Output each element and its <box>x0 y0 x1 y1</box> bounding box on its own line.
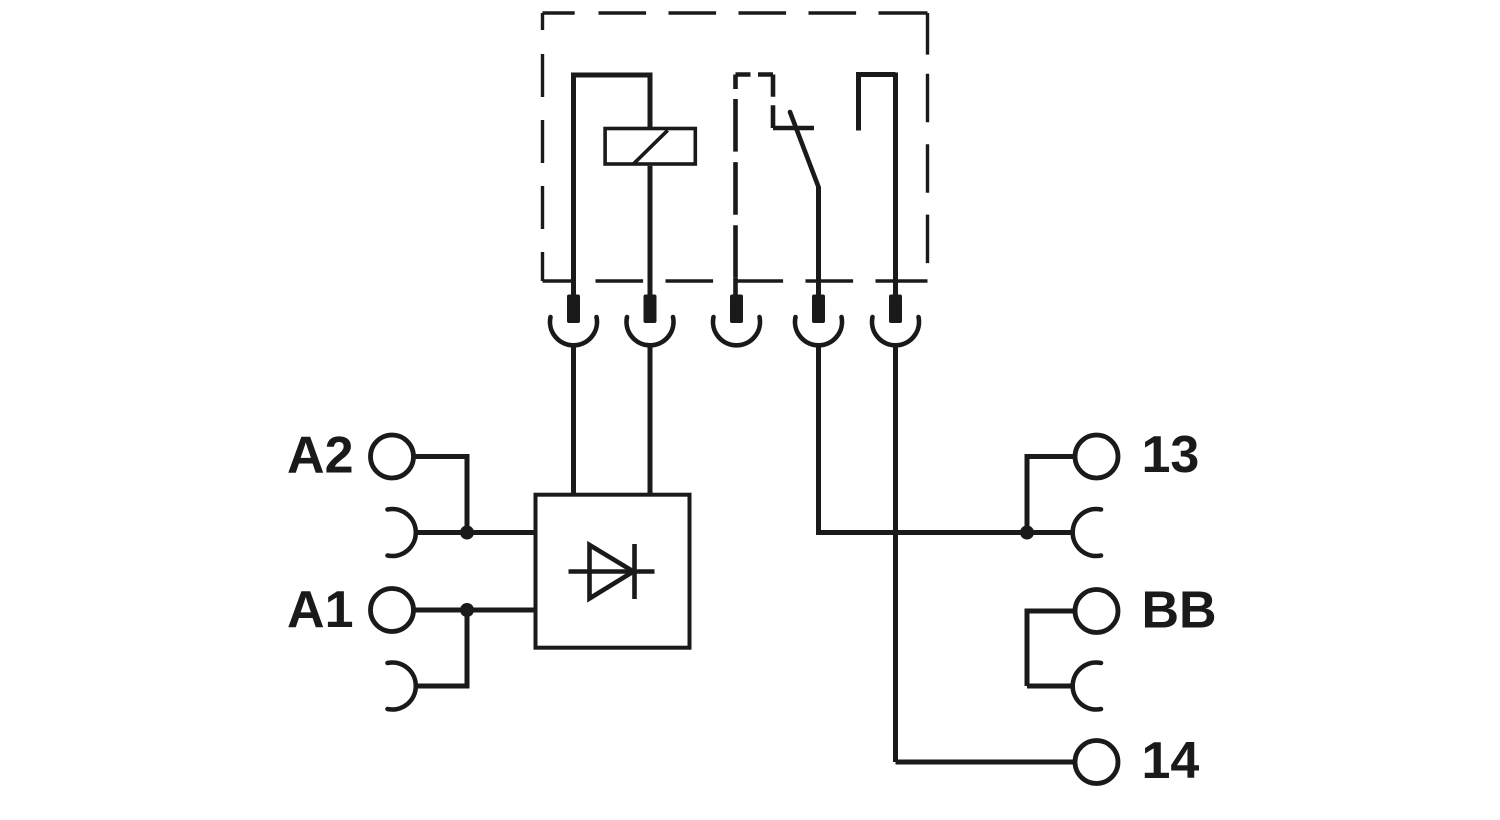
mechanical linkage dashed vertical to contact <box>771 75 776 129</box>
wire: T4 down to contact row <box>816 344 821 533</box>
wire: A2 socket to rectifier box <box>416 530 536 535</box>
wire: 13 circle left horizontal <box>1027 454 1075 459</box>
wire: T2 socket down to rectifier box <box>648 344 653 495</box>
mechanical linkage dashed vertical (to terminal T3) <box>733 75 738 296</box>
svg-text:A2: A2 <box>287 427 353 485</box>
wire: down corner to A1 lower socket <box>416 684 470 689</box>
relay coil K1 diagonal stripe <box>633 130 668 164</box>
wire: A1 to rectifier box <box>414 608 535 613</box>
socket circle A2 <box>371 435 414 478</box>
relay module boundary bottom edge (dashed) <box>543 279 928 282</box>
rectifier module U1 box <box>536 495 690 648</box>
wire: coil loop left riser (terminal T1 up) <box>571 75 576 295</box>
wire: 14 row horizontal <box>896 760 1075 765</box>
terminal T5 socket arc <box>872 317 919 345</box>
wire: A2 corner down to junction <box>465 454 470 533</box>
terminal T2 socket arc <box>627 317 674 345</box>
terminal T4 socket arc <box>795 317 842 345</box>
wire: common drop to terminal T5 <box>893 73 898 296</box>
terminal T5 pin <box>889 295 902 324</box>
junction node at 13 branch <box>1020 526 1034 540</box>
NO contact lever <box>790 112 819 187</box>
svg-text:13: 13 <box>1142 426 1200 484</box>
junction node at A2 branch <box>460 526 474 540</box>
wire: A2 to corner <box>414 454 467 459</box>
wire: contact common stub <box>856 75 861 131</box>
socket half-arc below A2 <box>388 509 416 556</box>
wire: A1 junction down <box>465 610 470 686</box>
wire: coil loop top horizontal <box>571 73 650 78</box>
terminal T3 socket arc <box>713 317 760 345</box>
wire: lever to terminal T4 <box>816 187 821 295</box>
wire: T1 socket down to rectifier box <box>571 344 576 495</box>
socket half-arc below BB <box>1073 663 1101 710</box>
wire: 13 corner down to junction <box>1025 454 1030 533</box>
mechanical linkage dashed horizontal top <box>736 72 774 77</box>
svg-text:BB: BB <box>1142 582 1217 640</box>
relay module boundary left edge (dashed) <box>541 13 544 281</box>
socket circle BB <box>1075 590 1118 633</box>
wire: BB corner down <box>1025 609 1030 687</box>
wire: coil bottom to terminal T2 <box>648 166 653 295</box>
socket circle 13 <box>1075 435 1118 478</box>
svg-text:14: 14 <box>1142 732 1200 790</box>
terminal T3 pin <box>730 295 743 324</box>
wire: contact row horizontal to 13 socket <box>816 530 1072 535</box>
wire: contact common top horizontal <box>856 72 896 77</box>
socket half-arc below A1 <box>388 663 416 710</box>
relay module boundary right edge (dashed) <box>926 13 929 281</box>
diode V1 axis line <box>569 569 655 574</box>
socket half-arc below 13 <box>1073 509 1101 556</box>
socket circle 14 <box>1075 741 1118 784</box>
wire: BB circle left horizontal <box>1027 609 1075 614</box>
terminal T1 pin <box>567 295 580 324</box>
junction node at A1 branch <box>460 603 474 617</box>
relay module boundary top edge (dashed) <box>543 11 928 14</box>
relay coil K1 body <box>605 129 695 165</box>
wire: T5 down to 14 row <box>893 344 898 762</box>
svg-text:A1: A1 <box>287 581 353 639</box>
terminal T2 pin <box>644 295 657 324</box>
terminal T1 socket arc <box>550 317 597 345</box>
diode V1 cathode bar <box>632 544 637 599</box>
wire: coil loop right drop to coil <box>648 73 653 129</box>
terminal T4 pin <box>812 295 825 324</box>
NO contact fixed bar <box>773 126 814 131</box>
diode V1 triangle <box>590 545 634 599</box>
wire: BB lower corner to socket <box>1027 684 1072 689</box>
socket circle A1 <box>371 589 414 632</box>
